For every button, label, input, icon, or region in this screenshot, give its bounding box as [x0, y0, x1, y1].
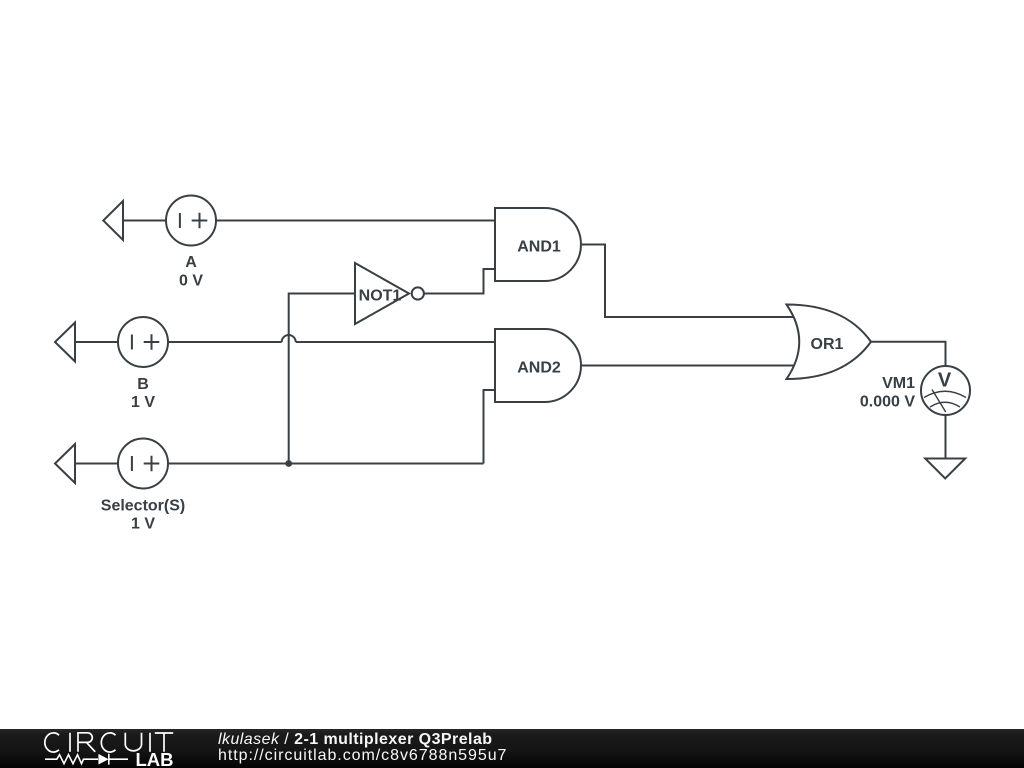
wire OR1 output to voltmeter: [871, 342, 946, 366]
wire voltmeter to ground: [945, 415, 947, 459]
wire Selector source to AND2 input 2: [75, 390, 495, 464]
voltage source A: [166, 196, 216, 246]
svg-text:VM1: VM1: [882, 375, 915, 392]
svg-text:B: B: [137, 376, 149, 393]
wire NOT1 output to AND1 input 2: [424, 269, 495, 294]
svg-text:1 V: 1 V: [131, 394, 155, 411]
wire B source to AND2 input 1 (with hop at x=288.7): [75, 341, 495, 343]
ground: [925, 459, 965, 479]
svg-text:V: V: [938, 370, 952, 392]
input flag A: [103, 201, 123, 240]
wire AND1 output to OR1 input 1: [581, 245, 794, 318]
voltage source Selector: [118, 439, 168, 489]
logo CIRCUIT: [45, 733, 173, 752]
svg-text:Selector(S): Selector(S): [101, 498, 185, 515]
svg-text:1 V: 1 V: [131, 516, 155, 533]
svg-text:AND2: AND2: [517, 360, 561, 377]
svg-text:A: A: [185, 254, 197, 271]
input flag Selector: [55, 444, 75, 483]
voltmeter VM1: [921, 366, 970, 415]
svg-text:OR1: OR1: [811, 336, 844, 353]
OR gate OR1: [787, 305, 872, 380]
footer title: [218, 731, 493, 748]
svg-text:0.000 V: 0.000 V: [860, 394, 915, 411]
AND gate AND2: [495, 329, 581, 402]
logo squiggle resistor+diode: [45, 754, 128, 765]
AND gate AND1: [495, 208, 581, 281]
voltage source B: [118, 317, 168, 367]
junction dot: [285, 460, 292, 467]
footer url: [218, 747, 507, 764]
wire selector branch up to NOT1 input: [289, 294, 355, 464]
svg-text:0 V: 0 V: [179, 273, 203, 290]
input flag B: [55, 323, 75, 362]
wire AND2 output to OR1 input 2: [581, 365, 794, 367]
svg-text:LAB: LAB: [135, 749, 173, 768]
svg-text:NOT1: NOT1: [359, 288, 402, 305]
wire A source to AND1 input 1: [123, 220, 495, 222]
footer bar: [0, 729, 1024, 768]
inverter NOT1: [355, 263, 409, 324]
wire hop over vertical: [282, 335, 296, 342]
svg-text:AND1: AND1: [517, 239, 561, 256]
